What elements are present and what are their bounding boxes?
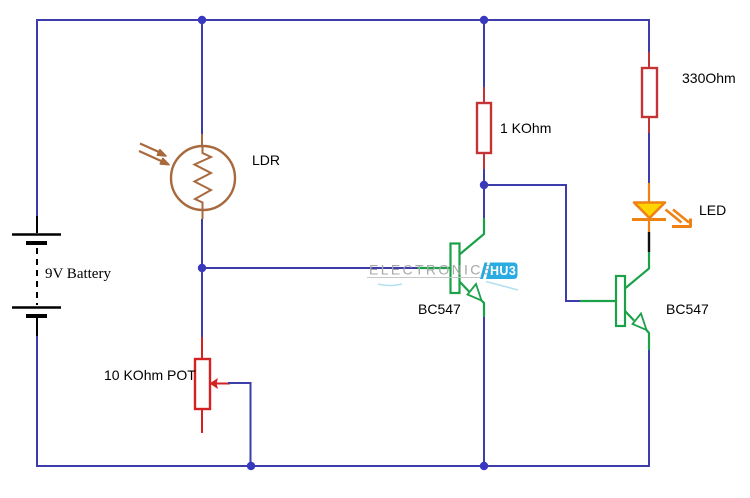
wire 330Ohm to LED [648,133,650,184]
LDR R-LDR [139,134,235,219]
wire LDR branch upper [201,20,203,134]
battery BT1 9V [12,216,61,336]
node top LDR branch [198,16,206,24]
label 10 KOhm POT [104,368,196,382]
wire Q1 emitter to bottom rail [483,317,485,466]
node E (Q1 emitter at bottom rail) [480,462,488,470]
label BC547 Q2 [666,302,709,316]
wire left rail upper (battery +) [36,19,38,216]
label LDR [252,153,280,167]
label BC547 Q1 [418,302,461,316]
wire 1KOhm branch upper [483,20,485,87]
resistor R1 1 KOhm [477,87,491,169]
svg-text:HU3: HU3 [490,264,516,278]
node top 1KOhm branch [480,16,488,24]
resistor R2 330Ohm [642,52,657,133]
LED cathode black segment [648,232,650,252]
transistor Q2 BC547 [580,252,649,350]
wire left rail lower [36,335,38,467]
wire right rail top [648,19,650,53]
wire LDR branch lower [201,219,203,268]
wire node D to Q2 base run [484,185,580,301]
watermark swoosh left [378,284,402,286]
label 330Ohm [682,71,736,85]
wire 1KOhm to node D [483,169,485,185]
node D (1K / Q1 collector / Q2 base) [480,181,488,189]
svg-text:ELECTRONICS: ELECTRONICS [369,262,494,278]
wire bottom rail [36,465,650,467]
wire pot wiper to bottom rail [228,383,251,466]
wire node D down to Q1 collector [483,185,485,219]
wire node B down to pot [201,268,203,337]
potentiometer R3 10 KOhm POT [195,337,230,433]
label 9V Battery [45,267,111,282]
label LED [699,203,726,217]
node C (wiper to bottom rail) [247,462,255,470]
transistor Q1 BC547 [417,218,484,317]
watermark underline [367,277,480,279]
label 1 KOhm [500,121,551,135]
node B (LDR / pot / Q1 base) [198,264,206,272]
wire Q2 emitter to bottom rail [648,350,650,466]
wire top rail [37,19,649,21]
LED D1 [632,183,691,232]
wire node B to Q1 base [202,267,417,269]
watermark HUB badge [480,263,518,280]
watermark swoosh right [486,282,518,291]
